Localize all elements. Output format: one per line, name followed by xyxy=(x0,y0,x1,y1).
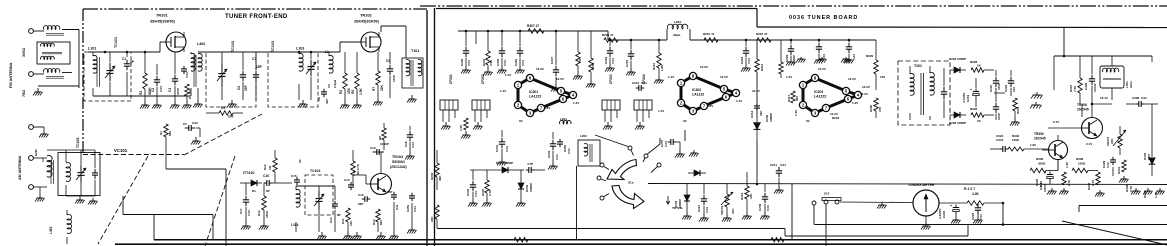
svg-text:2SC945: 2SC945 xyxy=(1077,108,1089,112)
capacitor C215 xyxy=(625,40,636,76)
svg-text:2.7K: 2.7K xyxy=(488,189,492,196)
resistor bus inline xyxy=(514,238,528,242)
resistor R336 300 xyxy=(1030,157,1058,173)
svg-text:1.4V: 1.4V xyxy=(668,75,674,79)
svg-text:LA1222: LA1222 xyxy=(814,94,826,98)
capacitor C218 0.04 xyxy=(740,40,751,72)
svg-text:R2: R2 xyxy=(139,91,143,95)
svg-text:0.04: 0.04 xyxy=(979,214,983,220)
svg-text:1.5K: 1.5K xyxy=(459,124,463,131)
op-amp U2 IC202 LA1222 xyxy=(677,72,739,114)
svg-text:R302: R302 xyxy=(482,58,486,66)
svg-text:CF203: CF203 xyxy=(609,74,613,84)
svg-text:0.02: 0.02 xyxy=(247,210,251,216)
svg-text:1.2K: 1.2K xyxy=(1154,191,1158,198)
wire TR102 gate xyxy=(340,42,361,52)
wire tuner front-end box left edge dash-dot xyxy=(82,9,84,154)
svg-text:R215 47: R215 47 xyxy=(756,32,768,36)
ground br4 xyxy=(1119,176,1129,183)
svg-text:1.8K: 1.8K xyxy=(660,64,664,71)
svg-text:R6: R6 xyxy=(339,90,343,94)
svg-text:L402: L402 xyxy=(197,42,205,46)
ground R7 xyxy=(373,98,383,106)
capacitor C281 0.04 xyxy=(514,31,525,74)
transformer T201 dashed box xyxy=(898,61,950,125)
svg-text:R10: R10 xyxy=(372,219,376,225)
transformer AM tank shield box xyxy=(58,153,100,196)
capacitor C251 0.04 xyxy=(406,193,417,234)
svg-text:1N60P: 1N60P xyxy=(957,57,966,61)
svg-text:1K: 1K xyxy=(977,64,982,68)
svg-text:L104: L104 xyxy=(291,223,299,227)
svg-text:T201: T201 xyxy=(914,64,922,68)
filter CF203 xyxy=(602,100,620,130)
wire B+ rail top xyxy=(436,9,1167,28)
capacitor C213 0.01 xyxy=(632,81,647,91)
wire tr103 links xyxy=(353,152,384,186)
node TC104 label xyxy=(310,169,320,173)
wire bottom bus upper xyxy=(154,239,1167,241)
node TC103 label xyxy=(271,41,275,52)
coil L101 xyxy=(93,52,100,96)
svg-text:150: 150 xyxy=(878,107,882,112)
ground R3 xyxy=(182,101,192,109)
svg-text:100P: 100P xyxy=(997,83,1001,90)
svg-text:TR306: TR306 xyxy=(1034,132,1044,136)
svg-text:47: 47 xyxy=(578,58,582,62)
ground meter left xyxy=(877,202,887,209)
svg-text:0.04: 0.04 xyxy=(467,60,471,66)
svg-text:300Ω: 300Ω xyxy=(1038,162,1046,166)
svg-text:TC102: TC102 xyxy=(231,41,235,52)
svg-text:CF202: CF202 xyxy=(481,74,485,84)
resistor R213 xyxy=(755,59,764,72)
wire D205 vertical feed xyxy=(756,40,759,185)
ground osc tank xyxy=(317,232,327,240)
svg-text:2.1V: 2.1V xyxy=(1086,142,1092,146)
wire bottom right horizontal xyxy=(1079,206,1167,213)
capacitor C203 4.7P xyxy=(526,162,545,173)
transformer FM balun xyxy=(37,42,70,64)
svg-text:C1: C1 xyxy=(122,57,126,61)
svg-text:1N60P: 1N60P xyxy=(769,113,773,122)
svg-text:3.3/25V: 3.3/25V xyxy=(938,209,942,219)
coil T201 primary xyxy=(910,66,914,120)
resistor R13 150K xyxy=(257,183,269,230)
svg-text:C204: C204 xyxy=(466,188,470,196)
capacitor C326 1000P xyxy=(1084,56,1097,104)
svg-text:C211: C211 xyxy=(770,163,777,167)
capacitor C224 3.3/25V electrolytic xyxy=(938,204,961,224)
svg-text:TUNER FRONT-END: TUNER FRONT-END xyxy=(225,14,288,20)
svg-text:C219: C219 xyxy=(604,56,608,64)
wire tuner board border vertical inner xyxy=(434,8,436,246)
resistor R9 4.7K xyxy=(351,150,360,175)
ground br1 xyxy=(1047,188,1069,195)
svg-text:R204: R204 xyxy=(430,172,434,180)
svg-text:75Ω: 75Ω xyxy=(22,90,26,97)
node dashed box 3 xyxy=(268,52,318,107)
wire supply rail inner right xyxy=(667,29,876,40)
svg-text:3SK45(3SK59): 3SK45(3SK59) xyxy=(150,20,176,24)
capacitor mid 0.04 b xyxy=(844,40,856,64)
svg-text:R336: R336 xyxy=(1036,157,1044,161)
ground T101 xyxy=(407,95,417,103)
wire meter line xyxy=(840,201,913,204)
svg-text:100P: 100P xyxy=(392,75,396,82)
svg-text:C305: C305 xyxy=(496,58,500,66)
wire tuner board border vertical outer xyxy=(426,10,428,246)
svg-text:1.4V: 1.4V xyxy=(500,89,506,93)
resistor R10 820 xyxy=(372,209,383,232)
svg-text:22K: 22K xyxy=(1110,138,1114,144)
svg-text:39K: 39K xyxy=(438,175,442,181)
node 13.1V label xyxy=(1100,96,1108,100)
capacitor C5 0.02 xyxy=(183,121,201,145)
resistor R214 10K xyxy=(740,172,753,220)
capacitor C15 xyxy=(291,159,302,185)
transformer T201 core xyxy=(921,73,924,115)
capacitor C202 0.01 xyxy=(547,132,559,170)
capacitor C4 0.02 xyxy=(181,66,189,78)
resistor R222 10K xyxy=(1010,98,1020,126)
svg-text:3.9K: 3.9K xyxy=(489,59,493,66)
capacitor C220 100P xyxy=(989,70,1001,96)
svg-text:100P: 100P xyxy=(997,113,1001,120)
switch S1-2 xyxy=(812,192,841,246)
terminal FM antenna 75 ohm xyxy=(29,72,34,77)
node L402 label xyxy=(197,42,205,46)
transformer L402 xyxy=(191,52,202,100)
svg-text:1.3V: 1.3V xyxy=(852,101,858,105)
ground br3 xyxy=(1131,188,1153,195)
ground far right xyxy=(1155,188,1165,195)
wire osc links xyxy=(1042,103,1112,170)
svg-text:10.2V: 10.2V xyxy=(752,89,760,93)
ground br2 xyxy=(1095,190,1105,197)
svg-text:C10: C10 xyxy=(370,146,376,150)
transistor TR306 2SC945 xyxy=(1034,132,1068,160)
resistor R229 150 xyxy=(866,40,885,90)
op-amp U3 IC203 LA1222 xyxy=(799,74,861,116)
resistor R11 10K xyxy=(341,208,353,232)
transistor TR101 3SK45 xyxy=(150,13,186,53)
coil FM input lower xyxy=(44,69,64,79)
diode D201 1N60P xyxy=(470,167,524,173)
transistor TR103 SE3001 xyxy=(371,155,407,195)
svg-text:R5: R5 xyxy=(351,90,355,94)
resistor R12 1M xyxy=(263,150,277,183)
capacitor C12 33P xyxy=(358,193,370,206)
svg-text:TR101: TR101 xyxy=(156,13,168,18)
svg-text:D1: D1 xyxy=(252,189,256,193)
capacitor C231 0.04 xyxy=(495,130,509,166)
svg-text:1000P: 1000P xyxy=(380,142,389,146)
svg-text:0.04: 0.04 xyxy=(766,205,770,211)
terminal FM antenna 300 ohm xyxy=(29,29,34,34)
wire top chassis dash-dot line xyxy=(420,5,1167,7)
svg-text:0V: 0V xyxy=(806,119,810,123)
svg-text:R 2 2 7: R 2 2 7 xyxy=(964,187,975,191)
ground R5 xyxy=(352,101,362,109)
node TUNER FRONT-END title xyxy=(225,14,288,20)
svg-text:S12: S12 xyxy=(824,192,830,196)
coil AM bar antenna xyxy=(33,155,53,187)
resistor R 1.5K cf xyxy=(459,118,471,139)
svg-text:0.04: 0.04 xyxy=(822,54,826,60)
svg-text:12.5V: 12.5V xyxy=(720,75,728,79)
svg-text:6P: 6P xyxy=(266,189,270,193)
wire fm term1 xyxy=(33,30,44,32)
wire osc tank top xyxy=(296,185,335,187)
ground TR103 row xyxy=(352,232,399,240)
svg-text:1.3V: 1.3V xyxy=(794,110,798,116)
capacitor C17 0.02 xyxy=(239,183,251,230)
svg-text:0V: 0V xyxy=(519,119,523,123)
filter CF201 xyxy=(440,100,458,130)
wire osc rail xyxy=(1054,56,1152,90)
resistor R217 560 xyxy=(787,91,799,103)
node FM antenna label xyxy=(8,62,13,88)
ground AM xyxy=(35,194,45,202)
capacitor AM trim xyxy=(92,150,98,196)
capacitor C225 0.04 xyxy=(971,203,983,224)
node S4a label xyxy=(628,181,634,185)
svg-text:C229: C229 xyxy=(785,54,789,62)
transformer T101 xyxy=(402,58,423,88)
svg-text:R212 47: R212 47 xyxy=(703,32,715,36)
wire bottom right diagonal xyxy=(1062,221,1167,245)
capacitor C3 100P xyxy=(168,52,180,101)
svg-text:0.02: 0.02 xyxy=(411,142,415,148)
node CF202 label xyxy=(481,74,485,84)
svg-text:1.4V: 1.4V xyxy=(736,99,742,103)
capacitor C227 xyxy=(550,31,561,92)
svg-text:1.9V: 1.9V xyxy=(1030,143,1036,147)
resistor R5 1.5K xyxy=(351,52,363,101)
svg-text:R226: R226 xyxy=(970,107,978,111)
svg-text:1N60P: 1N60P xyxy=(957,121,966,125)
svg-text:TR103: TR103 xyxy=(392,155,403,159)
svg-text:C15: C15 xyxy=(291,174,297,178)
svg-text:1.3V: 1.3V xyxy=(1065,162,1069,168)
svg-text:R307 47: R307 47 xyxy=(527,24,539,28)
svg-text:R205: R205 xyxy=(481,188,485,196)
svg-text:8.8V: 8.8V xyxy=(707,104,713,108)
node dashed box L101 xyxy=(84,52,131,101)
node 300 ohm label xyxy=(22,48,26,57)
capacitor C18 0.02 xyxy=(404,126,415,160)
svg-text:0.02: 0.02 xyxy=(185,72,189,78)
svg-text:0.04: 0.04 xyxy=(503,60,507,66)
svg-text:1/50V: 1/50V xyxy=(1043,184,1047,192)
svg-text:1M: 1M xyxy=(268,165,272,170)
node bottom labels right xyxy=(1143,190,1158,198)
resistor R307 47 xyxy=(527,24,544,33)
svg-text:120K: 120K xyxy=(1012,138,1020,142)
svg-text:12.5V: 12.5V xyxy=(556,77,564,81)
capacitor C306 0.04 xyxy=(460,31,471,74)
resistor R315 7.5K xyxy=(1069,56,1082,104)
ground sw area xyxy=(689,150,699,157)
node IC203 voltages xyxy=(786,67,870,123)
svg-text:0.04: 0.04 xyxy=(747,58,751,64)
wire supply rail inner left xyxy=(458,31,667,40)
node TO S4b label xyxy=(666,196,682,210)
svg-text:820: 820 xyxy=(379,220,383,225)
svg-text:10K: 10K xyxy=(749,193,753,199)
capacitor C219 4.7/25V electrolytic xyxy=(962,78,979,107)
svg-text:D201 1N60P: D201 1N60P xyxy=(496,161,513,165)
capacitor mid 0.04 a xyxy=(814,40,826,64)
wire bottom board edge xyxy=(115,243,1167,245)
ground row above IC203 xyxy=(796,57,851,63)
svg-text:0.01: 0.01 xyxy=(641,81,647,85)
svg-text:C201: C201 xyxy=(495,144,499,152)
node dashed box TC104 xyxy=(305,175,333,215)
svg-text:2SC945: 2SC945 xyxy=(1034,137,1046,141)
filter CF202 xyxy=(472,100,490,130)
wire osc B+ drop xyxy=(1063,28,1066,58)
svg-text:12.2V: 12.2V xyxy=(848,77,856,81)
svg-text:R217: R217 xyxy=(787,94,791,102)
svg-text:IC202: IC202 xyxy=(692,88,701,92)
capacitor C13 xyxy=(344,169,356,190)
coil L104 xyxy=(291,186,300,232)
svg-text:L451: L451 xyxy=(49,226,53,234)
svg-text:C210: C210 xyxy=(697,204,701,212)
switch S4a arrow upper xyxy=(607,160,637,180)
svg-text:1.4V: 1.4V xyxy=(658,109,664,113)
ground T201 out xyxy=(1030,102,1042,109)
svg-text:R4: R4 xyxy=(221,106,225,110)
resistor br2 xyxy=(1091,172,1100,186)
svg-text:0.04: 0.04 xyxy=(474,191,478,197)
svg-text:+: + xyxy=(1044,171,1046,175)
resistor R7 10K xyxy=(372,52,384,98)
svg-text:S1a: S1a xyxy=(628,181,634,185)
coil FM balun top xyxy=(44,26,64,36)
ground stage2 xyxy=(227,100,237,108)
wire t201 mid xyxy=(994,93,1005,102)
capacitor C2x 0.04 xyxy=(758,184,770,220)
svg-text:T101: T101 xyxy=(411,49,419,53)
svg-text:12.2V: 12.2V xyxy=(860,92,868,96)
svg-text:C13: C13 xyxy=(344,178,350,182)
capacitor C7 15P xyxy=(252,52,263,100)
wire am lower horizontal xyxy=(123,196,213,240)
wire long signal line xyxy=(648,184,1167,185)
wire r1 bottom xyxy=(166,169,226,246)
resistor R302 3.9K xyxy=(482,31,493,76)
node T101 label xyxy=(411,49,419,53)
resistor R338 100 xyxy=(1072,157,1098,173)
svg-text:C14: C14 xyxy=(329,217,333,223)
svg-text:TR102: TR102 xyxy=(360,13,372,18)
node 12.2V right xyxy=(860,92,868,96)
svg-text:40P: 40P xyxy=(325,99,329,104)
svg-text:2.7K: 2.7K xyxy=(1129,185,1133,192)
node D201 label xyxy=(496,161,513,165)
svg-text:2.7K: 2.7K xyxy=(1091,179,1095,186)
resistor bus inline 2 xyxy=(771,238,784,242)
node D203 label xyxy=(949,57,966,61)
svg-text:56K: 56K xyxy=(168,130,172,136)
svg-text:0.02: 0.02 xyxy=(159,86,163,92)
svg-text:0.04: 0.04 xyxy=(611,58,615,64)
svg-text:15P: 15P xyxy=(244,84,248,91)
resistor R210 1.8K xyxy=(652,40,664,84)
svg-text:0.04: 0.04 xyxy=(852,54,856,60)
wire gang dashed diagonal A xyxy=(98,156,148,244)
svg-text:+: + xyxy=(950,204,952,208)
svg-text:0.01: 0.01 xyxy=(555,154,559,160)
capacitor C219 0.04 xyxy=(604,40,615,72)
svg-text:TC105: TC105 xyxy=(76,138,80,148)
coil L1 2.3uH xyxy=(325,50,337,88)
resistor R280 150 xyxy=(869,98,882,118)
svg-text:0.04: 0.04 xyxy=(413,206,417,212)
svg-text:12.2V: 12.2V xyxy=(818,67,826,71)
node L103 label xyxy=(296,47,304,51)
junction dots rail xyxy=(465,30,851,42)
svg-text:CF201: CF201 xyxy=(449,74,453,84)
capacitor C212 33P xyxy=(750,103,763,118)
node L201 label xyxy=(560,117,571,124)
svg-text:C18: C18 xyxy=(404,141,408,147)
svg-text:C209: C209 xyxy=(758,203,762,211)
svg-text:0.04: 0.04 xyxy=(521,60,525,66)
resistor R209 47 xyxy=(602,33,618,42)
node TC101 label xyxy=(114,37,118,48)
meter TUNING METER xyxy=(908,183,939,216)
svg-text:3SK45(3SK59): 3SK45(3SK59) xyxy=(354,20,380,24)
svg-text:(2SC1342): (2SC1342) xyxy=(390,165,407,169)
resistor R325 1.7K vertical xyxy=(1062,172,1071,186)
svg-text:C8: C8 xyxy=(317,97,321,101)
svg-text:L203: L203 xyxy=(674,20,681,24)
capacitor C262 0.01 xyxy=(557,139,571,154)
wire mid board horizontal xyxy=(437,229,785,237)
resistor VR307 22K xyxy=(1106,126,1126,155)
wire switch feeds xyxy=(595,130,685,154)
capacitor C6 15P xyxy=(237,52,248,100)
svg-text:+: + xyxy=(970,88,972,92)
svg-text:C219: C219 xyxy=(966,94,970,102)
resistor R col 47 xyxy=(573,31,583,80)
svg-text:C215: C215 xyxy=(625,59,629,67)
resistor br1 xyxy=(1055,171,1057,173)
capacitor C207 0.04 xyxy=(660,139,685,158)
coil AM tank xyxy=(66,162,70,196)
capacitor C210 0.04 xyxy=(697,184,709,222)
svg-text:2.7K: 2.7K xyxy=(1067,179,1071,186)
coil L451 xyxy=(49,210,71,244)
svg-text:2.7V: 2.7V xyxy=(1053,120,1059,124)
diode D205 xyxy=(754,118,761,140)
node C315 plus label xyxy=(1035,178,1043,187)
svg-text:1000P: 1000P xyxy=(1093,83,1097,92)
svg-text:C12: C12 xyxy=(358,193,364,197)
svg-text:0036 TUNER BOARD: 0036 TUNER BOARD xyxy=(789,15,858,21)
svg-text:0.02: 0.02 xyxy=(192,121,198,125)
node CF204 label xyxy=(642,74,646,84)
capacitor C324 0.001 xyxy=(990,134,1008,152)
svg-text:560: 560 xyxy=(795,96,799,101)
resistor R215 47 xyxy=(718,32,771,42)
svg-text:R308: R308 xyxy=(591,62,595,70)
svg-text:8.8V: 8.8V xyxy=(544,106,550,110)
